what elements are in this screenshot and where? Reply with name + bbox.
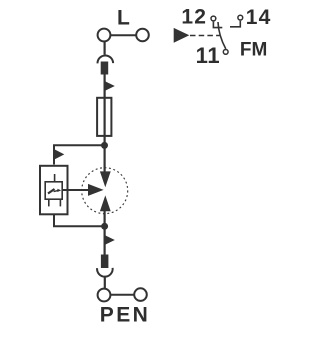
contact 12 fixed lead: [213, 22, 222, 28]
FM indicator triangle: [174, 28, 190, 43]
branch flag (left): [55, 150, 65, 160]
terminal L right circle: [136, 29, 149, 42]
contact 14 fixed lead: [230, 21, 240, 27]
wire: branch top (junction to trigger box): [54, 145, 105, 164]
wire: branch bottom (trigger box to junction): [54, 215, 105, 227]
trigger unit outer box: [40, 166, 68, 215]
node: top branch junction: [101, 142, 108, 149]
terminal PEN right circle: [134, 288, 147, 301]
svg-text:11: 11: [196, 43, 221, 68]
contact terminal 11 circle: [223, 50, 228, 55]
wire: spark gap to bottom junction: [103, 211, 105, 255]
spark gap upper electrode arrow: [100, 171, 111, 187]
svg-text:L: L: [117, 7, 130, 30]
spark gap lower electrode arrow: [100, 195, 111, 211]
gas discharge tube box: [45, 182, 62, 199]
svg-text:14: 14: [246, 6, 272, 29]
disconnector arc (bottom): [97, 268, 113, 277]
node: bottom branch junction: [101, 223, 108, 230]
fuse: [97, 98, 111, 136]
gas discharge tube bottom leads: [48, 200, 50, 206]
contact moving arm: [218, 22, 226, 49]
trigger arrow to spark gap: [63, 189, 89, 191]
wire: disconnector to fuse: [103, 75, 105, 172]
disconnector element bar (bottom): [101, 255, 109, 269]
disconnector arc (top): [97, 55, 113, 63]
wire: L down to disconnector: [103, 41, 105, 55]
terminal L left circle: [98, 29, 111, 42]
wire: terminal L link: [104, 34, 143, 36]
contact terminal 12 circle: [211, 16, 216, 21]
svg-text:12: 12: [181, 6, 207, 29]
status flag (bottom): [106, 236, 115, 245]
status flag (top): [106, 82, 115, 91]
wire: terminal PEN link: [104, 294, 141, 296]
svg-text:PEN: PEN: [100, 304, 150, 327]
FM dashed actuator line: [190, 35, 220, 37]
gas discharge tube top lead: [54, 174, 56, 182]
contact terminal 14 circle: [238, 15, 243, 20]
svg-text:FM: FM: [240, 40, 267, 61]
disconnector element bar (top): [101, 62, 109, 75]
spark gap dashed circle: [82, 168, 128, 214]
terminal PEN left circle: [98, 289, 111, 302]
lightning bolt inside GDT: [48, 189, 55, 194]
wire: disconnector to PEN terminal: [104, 276, 106, 288]
